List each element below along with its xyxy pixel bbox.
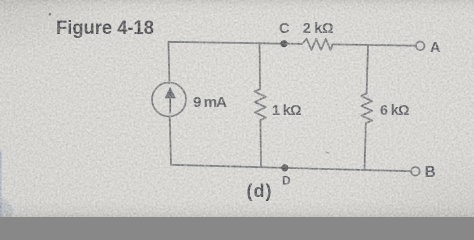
wire: bottom rail from bottom-left corner through node D to terminal B (171, 165, 411, 171)
wire: right branch lower segment (6 kOhm down to bottom rail) (365, 123, 366, 170)
node C (junction dot) (280, 40, 287, 47)
terminal B (open circle) (411, 167, 420, 176)
resistor R1 2 kOhm (horizontal zigzag on top rail) (302, 39, 333, 50)
wire: top rail from top-left corner through node C to terminal A (169, 42, 303, 44)
current source arrow (points up) (169, 95, 171, 114)
current source I1 (circle) (152, 83, 186, 117)
node D (junction dot) (281, 164, 288, 171)
wire: middle branch upper segment (top rail down to 1 kOhm) (259, 43, 262, 89)
wire: left branch upper segment (top-left corner down to current source) (168, 42, 171, 83)
speck near title (49, 13, 52, 16)
resistor R2 1 kOhm (vertical zigzag, middle branch) (255, 89, 266, 120)
speck above bottom wire right of node D (325, 151, 329, 154)
left screen-edge blue sliver (0, 150, 2, 217)
terminal A (open circle) (416, 42, 425, 51)
wire: middle branch lower segment (1 kOhm down to bottom rail) (259, 120, 262, 167)
wire: right branch upper segment (top rail down to 6 kOhm) (367, 45, 368, 94)
wire: left branch lower segment (current source down to bottom-left corner) (170, 116, 171, 165)
resistor R3 6 kOhm (vertical zigzag, right branch) (361, 94, 372, 124)
